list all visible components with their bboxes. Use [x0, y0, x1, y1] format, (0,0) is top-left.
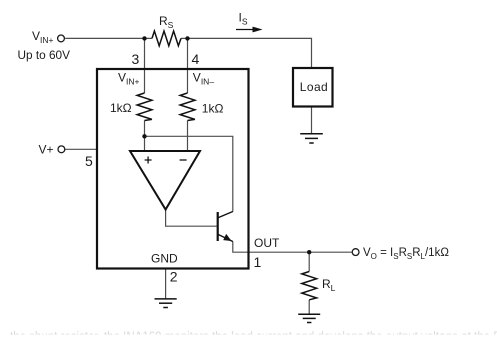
- ground (load): [300, 134, 323, 143]
- svg-text:4: 4: [192, 51, 200, 67]
- wire feedback node to collector: [145, 136, 233, 212]
- svg-text:5: 5: [85, 153, 93, 169]
- svg-text:Load: Load: [300, 80, 328, 94]
- wire OUT node to RL: [308, 252, 310, 271]
- node V+ terminal: [58, 146, 65, 153]
- svg-text:V+: V+: [39, 143, 54, 157]
- resistor RL: [302, 272, 317, 300]
- svg-text:1kΩ: 1kΩ: [110, 101, 132, 115]
- arrow IS: [236, 27, 263, 33]
- wire pin 4: [187, 38, 189, 93]
- svg-text:VO = ISRSRL/1kΩ: VO = ISRSRL/1kΩ: [363, 247, 449, 261]
- wire VIN+ terminal to Rs: [65, 37, 152, 39]
- wire RL to ground: [308, 300, 310, 314]
- node VO terminal: [352, 249, 359, 256]
- wire emitter to OUT terminal: [233, 242, 352, 253]
- wire Rs to Load top: [181, 38, 312, 68]
- resistor RS: [152, 31, 181, 46]
- resistor 1k right: [180, 93, 195, 121]
- wire op-amp output to base: [166, 210, 217, 227]
- svg-text:GND: GND: [151, 252, 178, 266]
- IC box U1: [97, 69, 249, 269]
- resistor 1k left: [137, 93, 152, 121]
- svg-text:1kΩ: 1kΩ: [202, 102, 224, 116]
- op-amp U1: [130, 151, 200, 210]
- svg-text:Up to 60V: Up to 60V: [18, 48, 71, 62]
- transistor Q1: [218, 212, 233, 242]
- svg-text:1: 1: [254, 254, 262, 270]
- svg-text:2: 2: [170, 269, 178, 285]
- junction node 4: [185, 36, 189, 40]
- junction feedback node: [142, 134, 146, 138]
- svg-text:OUT: OUT: [254, 236, 280, 250]
- node VIN+ terminal: [58, 35, 65, 42]
- svg-text:3: 3: [132, 51, 140, 67]
- load: [293, 68, 333, 107]
- ground (GND pin): [155, 299, 177, 308]
- wire right 1k to op-amp - input: [187, 121, 189, 152]
- junction OUT node: [307, 250, 311, 254]
- op-amp plus sign: [145, 157, 152, 164]
- op-amp minus sign: [180, 159, 187, 161]
- junction node 3: [142, 36, 146, 40]
- wire left 1k to op-amp + input: [144, 121, 146, 152]
- ground (RL): [298, 314, 320, 322]
- wire pin 3: [144, 38, 146, 93]
- wire V+ pin 5: [65, 148, 98, 150]
- wire GND pin 2: [165, 269, 167, 299]
- wire Load to ground: [311, 107, 313, 134]
